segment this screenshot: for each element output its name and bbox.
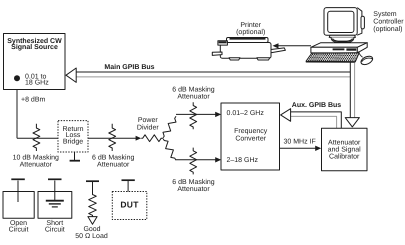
main GPIB bus arrowhead (into source) xyxy=(66,68,76,82)
DUT connector bar xyxy=(122,179,135,181)
arrow into power divider xyxy=(136,136,142,141)
svg-text:Signal Source: Signal Source xyxy=(11,43,58,51)
frequency converter box U2 xyxy=(221,103,280,170)
computer: keyboard xyxy=(306,53,359,63)
DUT stub xyxy=(127,181,129,192)
open circuit stub xyxy=(17,181,19,203)
signal source box U1 xyxy=(4,34,66,90)
svg-text:Frequency: Frequency xyxy=(234,128,268,135)
svg-text:Aux. GPIB Bus: Aux. GPIB Bus xyxy=(292,102,342,109)
load connector bar xyxy=(86,180,99,182)
power divider input resistor xyxy=(141,135,163,142)
printer body xyxy=(212,38,285,61)
svg-text:Power: Power xyxy=(138,117,159,124)
6 dB masking attenuator R2 (main line) xyxy=(109,124,116,151)
svg-text:(optional): (optional) xyxy=(373,25,402,33)
6 dB masking attenuator R3 (upper branch) xyxy=(190,102,197,129)
svg-text:Printer: Printer xyxy=(240,21,261,29)
wire: upper branch to converter xyxy=(176,113,216,115)
computer: monitor xyxy=(324,8,364,44)
svg-text:0.01–2 GHz: 0.01–2 GHz xyxy=(227,110,265,117)
printer arrow wire xyxy=(278,45,311,47)
aux branch left arrowhead xyxy=(281,109,291,122)
svg-text:Converter: Converter xyxy=(235,135,266,142)
svg-text:Controller: Controller xyxy=(373,17,404,25)
main GPIB bus (double line) xyxy=(75,71,350,73)
svg-text:Circuit: Circuit xyxy=(45,226,65,234)
wire: source output down xyxy=(16,79,18,138)
svg-text:2–18 GHz: 2–18 GHz xyxy=(227,157,259,164)
svg-text:50 Ω Load: 50 Ω Load xyxy=(75,232,108,240)
svg-text:Circuit: Circuit xyxy=(9,226,29,234)
aux GPIB bus down arrowhead xyxy=(345,118,359,127)
ground symbol xyxy=(46,200,64,202)
10 dB masking attenuator R1 xyxy=(33,124,40,151)
svg-text:Main GPIB Bus: Main GPIB Bus xyxy=(104,63,154,71)
attenuator and signal calibrator box U3 xyxy=(322,128,368,171)
computer: system unit xyxy=(311,43,367,53)
short circuit box xyxy=(38,192,72,219)
svg-text:30 MHz IF: 30 MHz IF xyxy=(284,139,316,146)
30 MHz IF wire xyxy=(280,147,316,149)
svg-text:Bridge: Bridge xyxy=(63,137,83,145)
svg-text:Divider: Divider xyxy=(137,123,159,131)
aux GPIB bus vertical (from computer down) xyxy=(349,63,351,119)
6 dB masking attenuator R4 (lower branch) xyxy=(190,148,197,175)
power divider lower arm resistor xyxy=(163,139,176,160)
svg-text:Good: Good xyxy=(83,225,100,233)
return loss bridge (dashed box) xyxy=(58,121,88,152)
svg-text:10 dB Masking: 10 dB Masking xyxy=(13,154,59,162)
svg-text:Calibrator: Calibrator xyxy=(329,152,360,160)
svg-text:6 dB Masking: 6 dB Masking xyxy=(172,178,215,186)
aux GPIB bus branch to frequency converter xyxy=(290,112,341,128)
svg-text:6 dB Masking: 6 dB Masking xyxy=(92,154,135,162)
svg-text:Attenuator: Attenuator xyxy=(20,161,53,168)
good 50 ohm load resistor R5 xyxy=(89,182,97,217)
wire: lower branch to converter xyxy=(176,159,216,161)
short circuit connector bar xyxy=(48,178,62,180)
svg-text:System: System xyxy=(373,11,397,18)
svg-text:+8 dBm: +8 dBm xyxy=(21,95,45,103)
svg-text:Attenuator: Attenuator xyxy=(177,93,210,100)
svg-text:and Signal: and Signal xyxy=(328,146,362,154)
svg-text:Attenuator: Attenuator xyxy=(97,161,130,168)
open circuit connector bar xyxy=(11,178,24,180)
computer: mouse xyxy=(358,52,374,67)
DUT dashed box xyxy=(112,192,147,220)
svg-text:Attenuator: Attenuator xyxy=(177,186,210,193)
short circuit stub xyxy=(54,181,56,201)
open circuit box xyxy=(3,192,34,219)
wire: main line to power divider xyxy=(17,137,137,139)
svg-text:(optional): (optional) xyxy=(236,28,265,36)
svg-text:DUT: DUT xyxy=(120,199,139,209)
load end arrowhead xyxy=(88,217,97,225)
bridge termination stub xyxy=(74,152,76,160)
svg-text:18 GHz: 18 GHz xyxy=(25,80,49,87)
power divider upper arm resistor xyxy=(163,116,176,138)
node: source output dot xyxy=(14,75,20,81)
